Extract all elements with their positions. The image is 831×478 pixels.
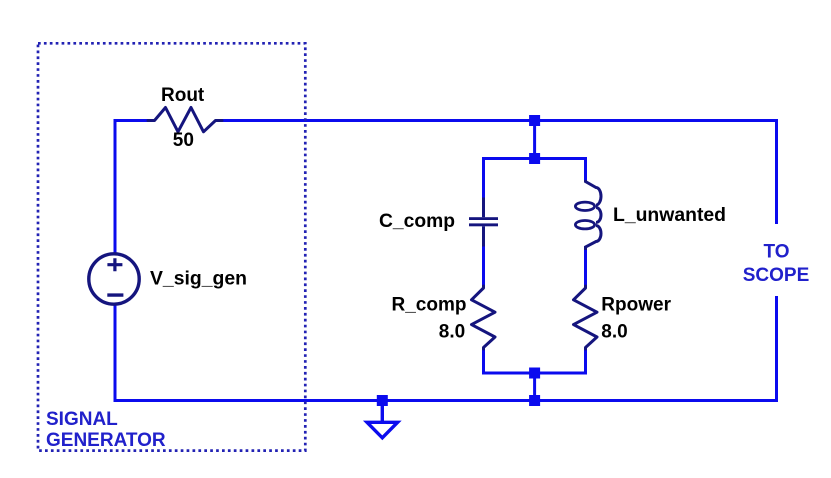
node junction square ground [377,395,388,406]
svg-text:V_sig_gen: V_sig_gen [150,269,247,290]
node junction square top rail [529,115,540,126]
svg-text:Rpower: Rpower [601,295,671,316]
resistor Rpower zigzag [574,286,598,349]
svg-text:GENERATOR: GENERATOR [46,430,166,451]
wire right branch upper [584,157,587,181]
svg-text:SIGNAL: SIGNAL [46,409,118,430]
wire right branch lower [584,348,587,375]
wire stub tank bottom to bottom rail [533,373,536,401]
inductor loop ellipse 1 [575,202,594,210]
wire tank bottom rail [484,372,586,375]
wire left branch upper [482,157,485,198]
wire left vertical upper [114,119,117,253]
ground triangle symbol [367,422,398,438]
wire left branch lower [482,348,485,375]
wire top rail right segment [216,119,777,122]
wire stub top rail to tank top [533,121,536,159]
svg-text:L_unwanted: L_unwanted [613,205,726,226]
node junction square bottom rail [529,395,540,406]
inductor L_unwanted coil [586,180,602,250]
wire tank top rail [484,157,586,160]
wire right branch middle [584,250,587,287]
svg-text:50: 50 [173,130,194,151]
voltage source V1 circle [89,254,139,304]
node junction square tank bottom [529,368,540,379]
capacitor C_comp bottom plate [469,223,498,226]
signal generator dotted enclosure box [38,43,305,450]
inductor loop ellipse 2 [575,221,594,229]
wire right vertical lower [775,296,778,402]
wire left vertical lower [114,305,117,400]
node junction square tank top [529,153,540,164]
wire right vertical upper [775,119,778,224]
capacitor C_comp top plate [469,217,498,220]
wire top rail left segment [115,119,154,122]
svg-text:TO: TO [763,242,789,263]
resistor Rout zigzag [148,108,222,132]
voltage source plus sign [107,258,122,271]
svg-text:SCOPE: SCOPE [743,265,810,286]
wire bottom rail [114,399,779,402]
capacitor C_comp bottom lead [482,226,485,246]
svg-text:R_comp: R_comp [392,295,467,316]
svg-text:Rout: Rout [161,85,205,106]
resistor R_comp zigzag [472,286,496,349]
wire left branch middle [482,246,485,287]
ground stub wire [381,401,384,422]
capacitor C_comp top lead [482,198,485,218]
svg-text:8.0: 8.0 [439,322,465,343]
voltage source minus sign [107,293,123,296]
svg-text:C_comp: C_comp [379,211,455,232]
svg-text:8.0: 8.0 [601,322,627,343]
